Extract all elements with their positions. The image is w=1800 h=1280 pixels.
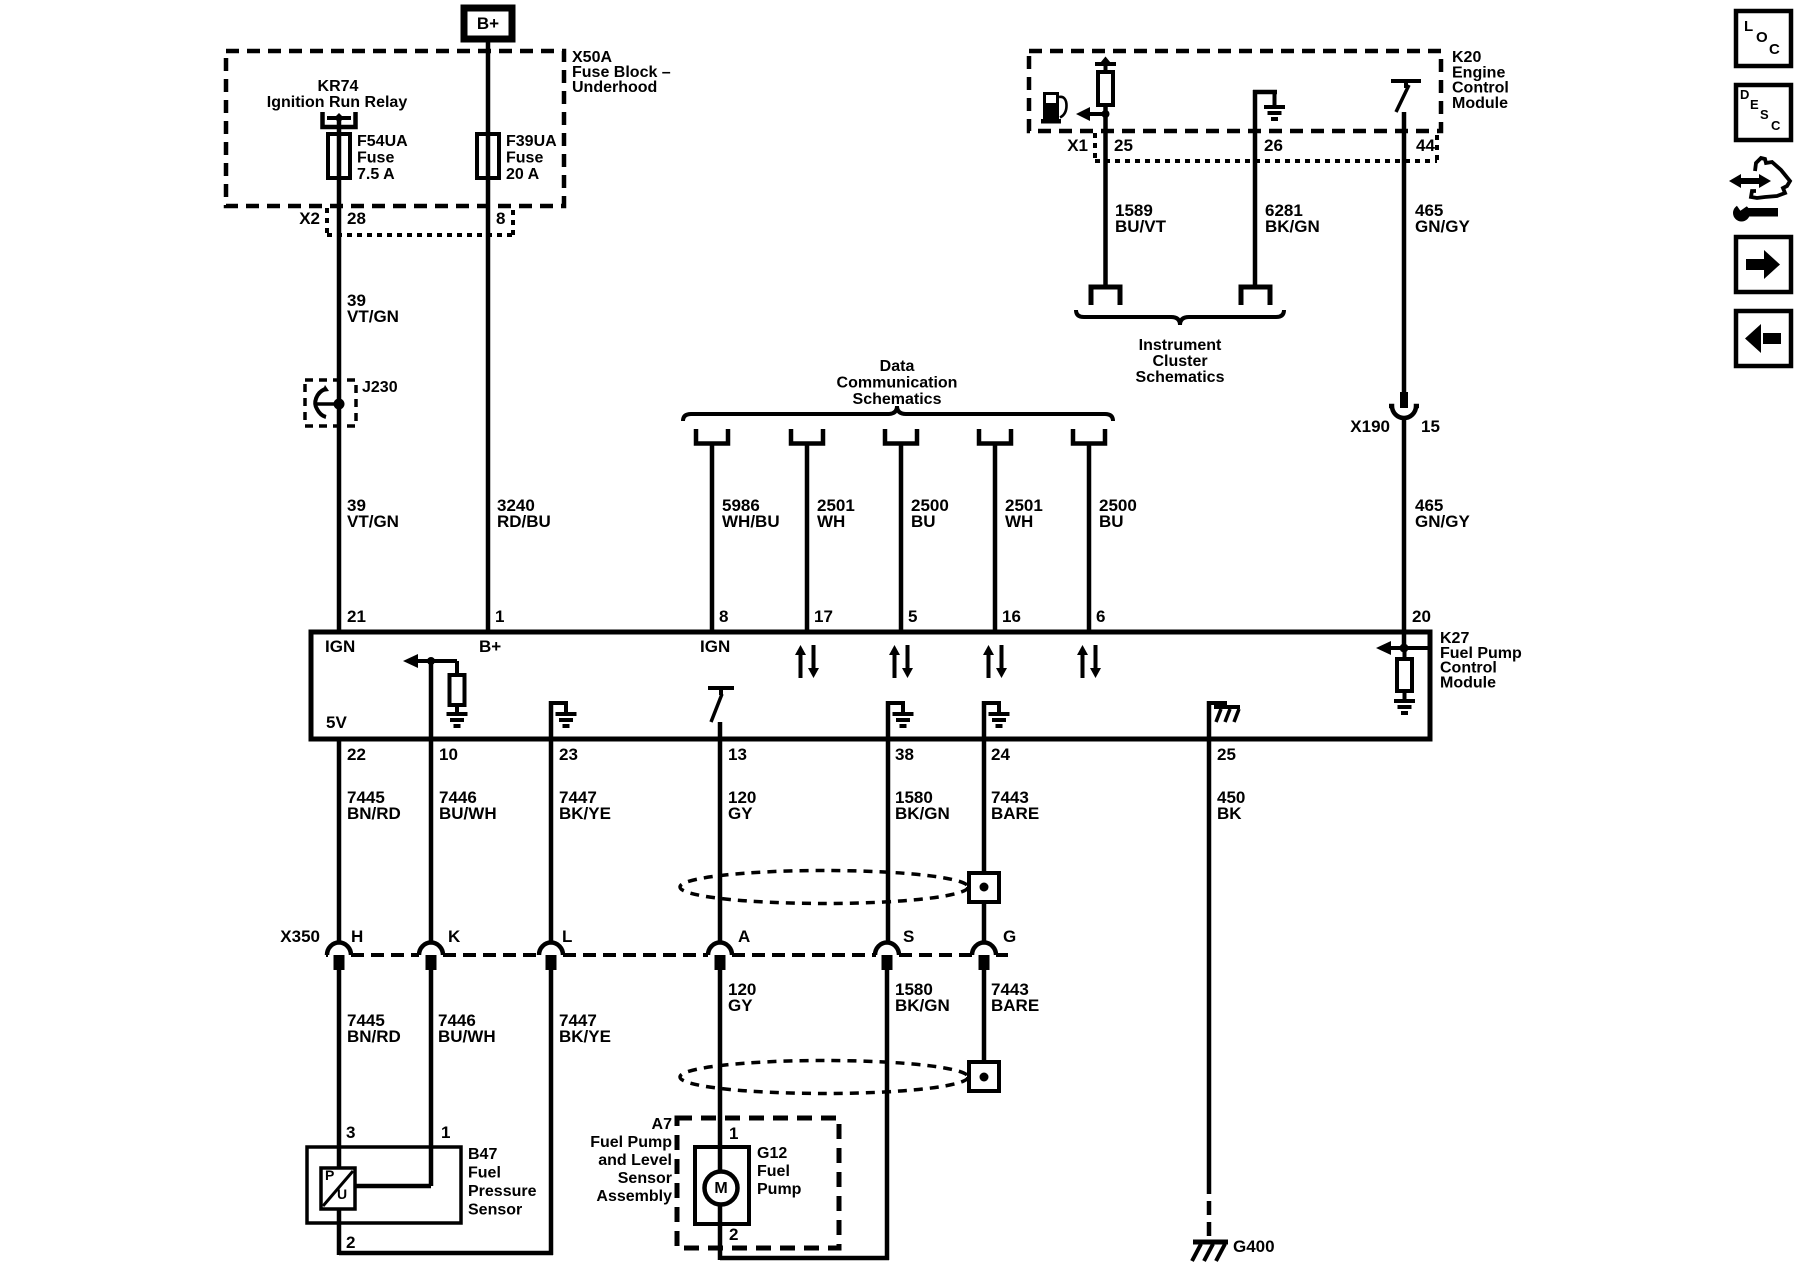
svg-text:BK/YE: BK/YE [559, 804, 611, 823]
connector X350 terminal A [708, 943, 732, 971]
svg-text:J230: J230 [362, 379, 398, 396]
svg-text:23: 23 [559, 745, 578, 764]
label Data Communication Schematics [837, 358, 958, 408]
svg-text:M: M [714, 1180, 727, 1197]
svg-text:24: 24 [991, 745, 1010, 764]
svg-text:Module: Module [1452, 95, 1508, 112]
label wire 7447 BK/YE (lower) [559, 1011, 611, 1046]
wire 2501 WH to K27 pin 16 [993, 443, 998, 632]
label wire 7446 BU/WH (above X350) [439, 788, 497, 823]
svg-text:44: 44 [1416, 136, 1435, 155]
label wire 6281 BK/GN [1265, 201, 1320, 236]
wire 7447 BK/YE from K27 down to X350 [549, 739, 554, 943]
svg-text:BARE: BARE [991, 996, 1039, 1015]
module K27 Fuel Pump Control Module box [311, 632, 1430, 739]
svg-text:BU: BU [1099, 512, 1124, 531]
svg-text:E: E [1750, 97, 1759, 112]
connector X350 terminal G [972, 943, 996, 971]
label wire 2500 BU [911, 496, 949, 531]
wire 7443 between shield box and X350 [982, 902, 987, 943]
inline connector X190 pin 15 [1389, 392, 1419, 418]
G12 pin numbers 1 2 [729, 1124, 738, 1244]
shield drain connector (upper) on wire 7443 [969, 873, 999, 902]
svg-text:L: L [1744, 18, 1753, 35]
label A7 Fuel Pump and Level Sensor Assembly [590, 1116, 672, 1205]
label wire 7443 BARE (above X350) [991, 788, 1039, 823]
label wire 120 GY (above X350) [728, 788, 756, 823]
label wire 120 GY (lower) [728, 980, 756, 1015]
K27 internal ground at pin x=551 [549, 701, 577, 739]
label F54UA Fuse 7.5 A [357, 133, 408, 183]
svg-text:G400: G400 [1233, 1237, 1275, 1256]
K27 internal ground at pin 24 [982, 701, 1010, 739]
svg-text:S: S [1760, 107, 1769, 122]
label wire 465 GN/GY (lower) [1415, 496, 1470, 531]
off-page connector to instrument cluster (wire 1589) [1089, 287, 1123, 305]
nav icon vehicle diagnostic (arrows, outline, wrench) [1729, 158, 1790, 222]
off-page connector (data comm) above pin 17 [791, 429, 823, 444]
svg-text:IGN: IGN [325, 637, 355, 656]
label wire 7445 BN/RD (lower) [347, 1011, 401, 1046]
wire 7446 BU/WH from K27 down to X350 [429, 739, 434, 943]
svg-text:and Level: and Level [598, 1152, 672, 1169]
label X350 pin A [738, 927, 750, 946]
wire 465 GN/GY upper (K20 pin 44 to X190) [1402, 131, 1407, 392]
wire 450 BK from K27 pin 25 to G400 [1207, 739, 1212, 1240]
svg-text:2: 2 [346, 1233, 355, 1252]
label X350 pin K [448, 927, 461, 946]
svg-text:L: L [562, 927, 572, 946]
label X190 and pin 15 [1350, 417, 1440, 436]
svg-text:Communication: Communication [837, 375, 958, 392]
nav button back (left arrow) [1736, 311, 1791, 366]
wire 120 GY from K27 down to X350 [718, 739, 723, 943]
svg-text:BU/WH: BU/WH [438, 1027, 496, 1046]
svg-text:GY: GY [728, 996, 753, 1015]
svg-text:B+: B+ [479, 637, 501, 656]
svg-text:KR74: KR74 [318, 78, 359, 95]
svg-text:BK/GN: BK/GN [1265, 217, 1320, 236]
K27 internal serial-data arrows at x=1089 [1077, 645, 1101, 678]
off-page connector (data comm) above pin 5 [885, 429, 917, 444]
brace instrument cluster group [1076, 310, 1284, 325]
svg-text:Underhood: Underhood [572, 79, 657, 96]
svg-text:28: 28 [347, 209, 366, 228]
wire 2501 WH to K27 pin 17 [805, 443, 810, 632]
svg-text:K: K [448, 927, 461, 946]
svg-text:Fuel: Fuel [757, 1163, 790, 1180]
svg-text:P: P [325, 1167, 334, 1183]
svg-text:1: 1 [441, 1123, 450, 1142]
connector X1 dotted row [1095, 133, 1437, 161]
K27 internal serial-data arrows at x=995 [983, 645, 1007, 678]
label wire 1580 BK/GN (lower) [895, 980, 950, 1015]
svg-text:2: 2 [729, 1225, 738, 1244]
wire 7443 BARE lower (X350-G to shield drain) [982, 968, 987, 1063]
svg-text:5: 5 [908, 607, 917, 626]
wire B+ feed down into fuse block [486, 42, 491, 136]
svg-text:D: D [1740, 87, 1749, 102]
wire 1580 BK/GN lower (X350-S to fuel pump return) [885, 968, 890, 1260]
svg-text:BK/GN: BK/GN [895, 804, 950, 823]
label X350 [280, 927, 320, 946]
label connector X1 and pins 25, 26, 44 [1067, 136, 1435, 155]
svg-text:Schematics: Schematics [1136, 369, 1225, 386]
svg-text:S: S [903, 927, 914, 946]
svg-text:Sensor: Sensor [468, 1202, 522, 1219]
svg-text:F54UA: F54UA [357, 133, 408, 150]
label wire 39 VT/GN (upper) [347, 291, 399, 326]
label wire 1580 BK/GN (above X350) [895, 788, 950, 823]
svg-text:BU/WH: BU/WH [439, 804, 497, 823]
K27 internal serial-data arrows at x=901 [889, 645, 913, 678]
B47 pin numbers 3 1 2 [346, 1123, 450, 1252]
K27 internal switch (fuel pump driver) at pin 13 [708, 688, 734, 739]
svg-text:3: 3 [346, 1123, 355, 1142]
svg-text:26: 26 [1264, 136, 1283, 155]
svg-text:A7: A7 [652, 1116, 673, 1133]
label wire 39 VT/GN (lower) [347, 496, 399, 531]
svg-text:X190: X190 [1350, 417, 1390, 436]
splice J230 [305, 380, 356, 426]
fuse block X50A dashed outline [226, 51, 564, 206]
svg-text:20: 20 [1412, 607, 1431, 626]
label wire 5986 WH/BU [722, 496, 780, 531]
wire 3240 RD/BU (fuse F39UA to K27 pin 1) [486, 176, 491, 632]
svg-text:Fuse: Fuse [506, 150, 543, 167]
svg-text:BN/RD: BN/RD [347, 1027, 401, 1046]
svg-text:1: 1 [729, 1124, 738, 1143]
label wire 1589 BU/VT [1115, 201, 1167, 236]
svg-text:1: 1 [495, 607, 504, 626]
sensor B47 fuel pressure sensor box [307, 1147, 461, 1223]
wire 7446 BU/WH lower (X350-K to B47 pin 1) [355, 968, 431, 1186]
svg-text:Fuel Pump: Fuel Pump [590, 1134, 672, 1151]
svg-text:BU/VT: BU/VT [1115, 217, 1167, 236]
K27 internal serial-data arrows at x=807 [795, 645, 819, 678]
svg-text:Data: Data [880, 358, 915, 375]
label J230 [362, 379, 398, 396]
label G400 [1233, 1237, 1275, 1256]
svg-text:F39UA: F39UA [506, 133, 557, 150]
svg-text:20 A: 20 A [506, 166, 540, 183]
svg-text:Sensor: Sensor [618, 1170, 672, 1187]
svg-text:13: 13 [728, 745, 747, 764]
off-page connector to instrument cluster (wire 6281) [1239, 287, 1273, 305]
label wire 7447 BK/YE (above X350) [559, 788, 611, 823]
svg-text:10: 10 [439, 745, 458, 764]
nav button next (right arrow) [1736, 237, 1791, 292]
K27 internal ground at pin x=888 [886, 701, 914, 739]
svg-text:GY: GY [728, 804, 753, 823]
wire 7445 BN/RD lower (X350-H to B47 pin 3) [337, 968, 342, 1168]
svg-text:Assembly: Assembly [596, 1188, 672, 1205]
chassis ground G400 [1192, 1242, 1228, 1261]
K27 internal labels IGN B+ IGN 5V [325, 637, 730, 732]
svg-text:G: G [1003, 927, 1016, 946]
svg-text:X2: X2 [299, 209, 320, 228]
node B+ battery feed terminal [464, 8, 512, 39]
wire 39 VT/GN upper segment (fuse F54UA to splice J230) [337, 176, 342, 404]
svg-text:U: U [337, 1186, 347, 1202]
label connector X2 and pins 28, 8 [299, 209, 505, 228]
svg-text:B47: B47 [468, 1146, 497, 1163]
fuse F39UA symbol [477, 134, 499, 178]
svg-text:22: 22 [347, 745, 366, 764]
K27 bottom pin numbers 22 10 23 13 38 24 25 [347, 745, 1236, 764]
label X350 pin G [1003, 927, 1016, 946]
label wire 2501 WH [1005, 496, 1043, 531]
svg-text:BARE: BARE [991, 804, 1039, 823]
svg-text:H: H [351, 927, 363, 946]
label K20 Engine Control Module [1452, 49, 1509, 112]
svg-text:Cluster: Cluster [1152, 353, 1207, 370]
svg-text:RD/BU: RD/BU [497, 512, 551, 531]
svg-text:Module: Module [1440, 674, 1496, 691]
label B47 Fuel Pressure Sensor [468, 1146, 537, 1219]
svg-text:Fuel: Fuel [468, 1165, 501, 1182]
brace data communication group [683, 406, 1113, 421]
svg-text:15: 15 [1421, 417, 1440, 436]
wire 7447 BK/YE lower (X350-L to B47 pin 2 return) [549, 968, 554, 1255]
label wire 2501 WH [817, 496, 855, 531]
svg-text:BU: BU [911, 512, 936, 531]
wire 2500 BU to K27 pin 6 [1087, 443, 1092, 632]
svg-text:Pump: Pump [757, 1181, 802, 1198]
label wire 450 BK [1217, 788, 1245, 823]
svg-text:A: A [738, 927, 750, 946]
G12 fuel pump box [695, 1147, 749, 1224]
wire B47 pin2 return to 7447 junction [339, 1209, 553, 1255]
wire 7443 BARE from K27 down to X350 [982, 739, 987, 874]
off-page connector (data comm) above pin 8 [696, 429, 728, 444]
module K20 dashed box [1029, 51, 1441, 131]
svg-text:25: 25 [1114, 136, 1133, 155]
label wire 3240 RD/BU [497, 496, 551, 531]
label wire 7443 BARE (lower) [991, 980, 1039, 1015]
label X350 pin L [562, 927, 572, 946]
internal ground (K20 pin 26) [1253, 90, 1285, 131]
motor M symbol (fuel pump) [705, 1172, 738, 1205]
connector X2 dotted row [327, 208, 513, 235]
wire 2500 BU to K27 pin 5 [899, 443, 904, 632]
svg-text:VT/GN: VT/GN [347, 307, 399, 326]
internal supply + resistor + driver arrow (K20 pin 25 circuit) [1076, 57, 1116, 132]
svg-text:C: C [1771, 118, 1781, 133]
label Instrument Cluster Schematics [1136, 337, 1225, 386]
svg-text:O: O [1756, 29, 1768, 46]
wire 6281 BK/GN (K20 pin 26 to instrument cluster) [1253, 131, 1258, 286]
svg-text:WH: WH [817, 512, 845, 531]
K27 top pin numbers 21 1 8 17 5 16 6 20 [347, 607, 1431, 626]
nav button DESC [1736, 85, 1791, 140]
connector X350 dashed line [326, 953, 1008, 957]
svg-text:8: 8 [496, 209, 505, 228]
svg-text:Instrument: Instrument [1139, 337, 1222, 354]
svg-text:BK/GN: BK/GN [895, 996, 950, 1015]
label wire 465 GN/GY (upper) [1415, 201, 1470, 236]
svg-text:X1: X1 [1067, 136, 1088, 155]
wire 120 GY lower (X350-A to G12 fuel pump) [718, 968, 723, 1172]
fuel pump icon inside K20 [1041, 92, 1067, 124]
svg-text:BN/RD: BN/RD [347, 804, 401, 823]
svg-text:25: 25 [1217, 745, 1236, 764]
wire G12 pin 2 return to 1580 junction [720, 1203, 889, 1260]
svg-text:G12: G12 [757, 1145, 787, 1162]
off-page connector (data comm) above pin 16 [979, 429, 1011, 444]
connector X350 terminal H [327, 943, 351, 971]
svg-text:16: 16 [1002, 607, 1021, 626]
svg-text:8: 8 [719, 607, 728, 626]
svg-text:Ignition Run Relay: Ignition Run Relay [267, 94, 408, 111]
svg-text:6: 6 [1096, 607, 1105, 626]
label wire 2500 BU [1099, 496, 1137, 531]
fuse F54UA symbol [328, 134, 350, 178]
svg-text:7.5 A: 7.5 A [357, 166, 395, 183]
svg-text:21: 21 [347, 607, 366, 626]
off-page connector (data comm) above pin 6 [1073, 429, 1105, 444]
svg-text:BK/YE: BK/YE [559, 1027, 611, 1046]
wire 465 GN/GY lower (X190 to K27 pin 20) [1402, 417, 1407, 632]
pressure transducer P/U symbol inside B47 [321, 1167, 355, 1209]
K27 internal driver arrow, resistor, ground at pin 20 [1376, 632, 1428, 713]
svg-text:VT/GN: VT/GN [347, 512, 399, 531]
svg-text:WH/BU: WH/BU [722, 512, 780, 531]
svg-text:Pressure: Pressure [468, 1183, 537, 1200]
svg-text:X350: X350 [280, 927, 320, 946]
wire 1589 BU/VT (K20 pin 25 to instrument cluster) [1103, 131, 1108, 286]
label F39UA Fuse 20 A [506, 133, 557, 183]
label wire 7445 BN/RD (above X350) [347, 788, 401, 823]
wire 5986 WH/BU to K27 pin 8 [710, 443, 715, 632]
relay KR74 label [267, 78, 408, 111]
connector X350 terminal K [419, 943, 443, 971]
wire 7445 BN/RD from K27 down to X350 [337, 739, 342, 943]
svg-text:GN/GY: GN/GY [1415, 512, 1470, 531]
twisted/shielded pair ellipse (upper) around wires 120 and 1580 [680, 871, 968, 904]
svg-text:IGN: IGN [700, 637, 730, 656]
svg-text:C: C [1769, 41, 1780, 58]
wire 39 VT/GN lower segment (J230 to K27 pin 21) [337, 404, 342, 632]
svg-text:BK: BK [1217, 804, 1242, 823]
svg-text:GN/GY: GN/GY [1415, 217, 1470, 236]
twisted/shielded pair ellipse (lower) [680, 1061, 968, 1094]
svg-text:38: 38 [895, 745, 914, 764]
label X350 pin S [903, 927, 914, 946]
label X50A Fuse Block - Underhood [572, 49, 671, 96]
svg-text:Schematics: Schematics [853, 391, 942, 408]
wire 1580 BK/GN from K27 down to X350 [886, 739, 891, 943]
K27 internal wire pin 10 [429, 661, 434, 739]
relay KR74 contact symbol [323, 112, 356, 136]
svg-text:WH: WH [1005, 512, 1033, 531]
svg-text:Fuse: Fuse [357, 150, 394, 167]
svg-text:B+: B+ [477, 14, 499, 33]
K27 internal chassis ground at pin 25 [1207, 701, 1240, 739]
label K27 Fuel Pump Control Module [1440, 630, 1522, 691]
connector X350 terminal S [875, 943, 899, 971]
label G12 Fuel Pump [757, 1145, 802, 1198]
svg-text:5V: 5V [326, 713, 347, 732]
nav button LOC [1736, 11, 1791, 66]
svg-text:17: 17 [814, 607, 833, 626]
label X350 pin H [351, 927, 363, 946]
connector X350 terminal L [539, 943, 563, 971]
assembly A7 Fuel Pump and Level Sensor dashed box [677, 1118, 839, 1248]
label wire 7446 BU/WH (lower) [438, 1011, 496, 1046]
K27 internal pull-up: arrow, resistor and ground at pin 10 [403, 654, 468, 726]
internal switch / driver (K20 pin 44) [1391, 81, 1421, 131]
shield drain connector (lower) on wire 7443 [969, 1062, 999, 1091]
